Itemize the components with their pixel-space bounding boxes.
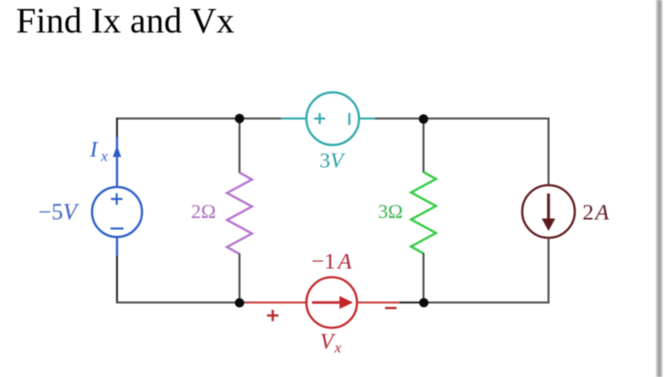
plus sign inside -5V source	[111, 198, 123, 200]
label: plus polarity mark of Vx	[267, 314, 279, 316]
node: top junction at 2-ohm	[235, 114, 244, 123]
wire: blue lead below -5V source	[116, 237, 118, 257]
svg-text:2Ω: 2Ω	[191, 201, 216, 223]
resistor R1 2 ohm zigzag	[227, 173, 252, 255]
svg-text:2A: 2A	[583, 200, 610, 225]
svg-text:Find Ix and Vx: Find Ix and Vx	[16, 1, 234, 41]
wire: right rail bottom segment	[548, 238, 550, 304]
svg-text:3V: 3V	[320, 149, 347, 173]
current source I1 (-1A / Vx) circle	[306, 277, 357, 328]
arrow inside Vx source pointing right	[312, 301, 340, 304]
wire: teal stub left of 3V source	[281, 118, 307, 120]
svg-text:I: I	[89, 137, 99, 162]
wire: top rail right segment	[375, 118, 550, 120]
node: bottom junction at 2-ohm	[235, 298, 244, 307]
voltage source V2 (3V) circle	[306, 92, 359, 145]
wire: red segment right of Vx source	[357, 302, 400, 304]
label: minus polarity mark of Vx	[385, 307, 397, 309]
wire: red segment left of Vx source	[245, 302, 307, 304]
wire: gray segment before right bottom junction	[400, 302, 425, 304]
svg-text:x: x	[334, 341, 342, 357]
wire: left rail top gray segment	[116, 118, 118, 139]
wire: left rail bottom gray segment	[116, 256, 118, 304]
wire: 3-ohm resistor top lead	[423, 119, 425, 173]
plus sign inside 3V source	[314, 118, 325, 120]
svg-text:x: x	[100, 149, 108, 165]
svg-text:−1A: −1A	[312, 249, 352, 274]
minus sign inside -5V source	[111, 228, 124, 230]
wire: bottom rail right segment	[424, 302, 550, 304]
node: top junction at 3-ohm	[419, 114, 428, 123]
wire: teal stub right of 3V source	[358, 118, 375, 120]
wire: 2-ohm resistor top lead	[239, 119, 241, 174]
voltage source V1 (-5V) circle	[92, 187, 142, 237]
svg-text:3Ω: 3Ω	[378, 201, 403, 223]
wire: bottom rail left segment	[116, 302, 245, 304]
svg-text:−5V: −5V	[39, 200, 80, 225]
wire: left rail blue segment with Ix arrow shaft	[116, 137, 118, 188]
node: bottom junction at 3-ohm	[419, 298, 428, 307]
minus terminal bar inside 3V source	[348, 113, 350, 125]
resistor R2 3 ohm zigzag	[411, 172, 436, 254]
arrow inside 2A source pointing down	[547, 194, 550, 221]
wire: 2-ohm resistor bottom lead	[239, 254, 241, 304]
wire: top rail left segment	[116, 118, 281, 120]
wire: 3-ohm resistor bottom lead	[423, 253, 425, 303]
current source I2 (2A) circle	[522, 185, 575, 238]
wire: right rail top segment	[548, 118, 550, 186]
arrowhead: Ix current arrow	[113, 146, 121, 158]
